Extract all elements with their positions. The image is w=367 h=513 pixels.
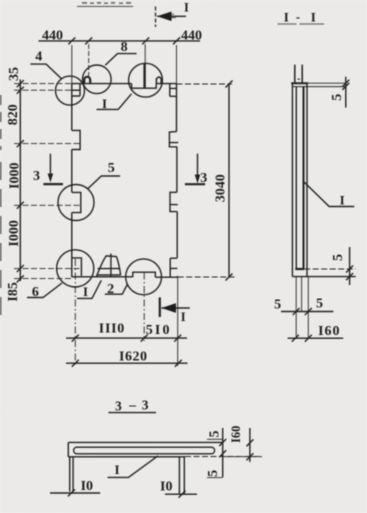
svg-text:I: I [340,193,345,208]
svg-text:4: 4 [35,50,42,65]
leader node 1 top [97,94,132,110]
leader pos.4 [30,64,61,78]
scan noise on marker line [166,14,176,18]
svg-text:3: 3 [200,171,207,186]
leader pos.8 [105,54,136,66]
leader pos.6 [27,283,62,298]
svg-text:I620: I620 [119,350,147,365]
svg-text:5: 5 [208,431,223,438]
left column extensions [14,84,81,279]
svg-text:I60: I60 [318,324,340,339]
right 10 dim [165,493,197,495]
lifting loop (pos.8) [84,77,90,84]
left bottom corner rebate (node 6) [72,258,82,276]
top-right corner plates [170,84,177,97]
panel bottom edge [72,276,178,278]
node circle 6 [57,250,94,287]
svg-text:I: I [284,10,289,25]
bottom-right corner plates [170,258,177,277]
right 3040 dimension [228,84,230,277]
right leg [179,457,184,494]
svg-text:5I0: 5I0 [146,323,172,338]
left edge notch 1 [72,130,80,149]
section marker 3 right [197,154,199,177]
node circle 1 top [129,63,163,97]
ticks top dims [68,37,180,44]
extension left edge up [71,45,73,84]
svg-text:–: – [128,397,136,412]
left leg [70,457,73,492]
svg-text:6: 6 [32,285,39,300]
160 dim [249,428,251,462]
bar left cap [67,442,69,456]
thick extension through node circle 1 [143,64,145,88]
section bottom [292,276,355,278]
panel top edge recess (node 1 detail) [132,84,157,89]
svg-text:I60: I60 [229,426,243,443]
svg-text:5: 5 [331,254,346,261]
leader pos.1 bottom [77,280,101,298]
cavity bottom [295,268,304,270]
anchor plate above top edge [156,77,161,84]
lower extensions [296,277,308,339]
svg-text:III0: III0 [99,322,125,337]
extension recess axis [144,44,146,64]
bottom dimension lines [66,337,187,339]
svg-text:I: I [311,10,316,25]
bar bottom [68,456,185,458]
right edge notch 1 [169,132,178,147]
svg-text:2: 2 [107,282,114,297]
svg-text:I: I [184,0,189,14]
svg-text:440: 440 [181,28,202,43]
section walls [291,83,293,276]
top-left corner plates (node 4) [72,84,80,96]
svg-text:35: 35 [7,67,22,81]
svg-text:I: I [115,462,120,477]
bar top [68,441,222,443]
node circle 4 [56,76,85,105]
node circle 5 [58,185,94,221]
svg-text:I0: I0 [160,479,172,494]
section marker 3 left [49,154,51,176]
svg-text:I: I [102,96,107,111]
scan artifact: left border [0,95,2,318]
svg-text:I: I [181,310,186,324]
160 dim line [288,337,344,339]
svg-text:3040: 3040 [213,174,228,202]
keyway trapezoid (pos.2) [96,256,120,277]
bottom 5 dim [349,247,351,285]
right 5-5 dim [222,428,224,478]
svg-text:I000: I000 [7,220,22,246]
panel right edge [177,84,178,277]
title 1-1 [284,9,316,25]
leader pos.5 [88,176,121,189]
svg-text:5: 5 [274,297,281,312]
svg-text:5: 5 [316,296,323,311]
top 5 dim [345,77,347,108]
bottom extensions [75,259,177,366]
svg-text:I0: I0 [81,479,93,494]
svg-text:3: 3 [115,398,122,413]
extension loop axis [88,44,90,76]
left dimension column line [19,80,21,282]
svg-text:I000: I000 [7,163,22,189]
5+5 dim line [281,311,333,313]
svg-text:I: I [83,284,88,299]
svg-text:-: - [296,9,300,24]
svg-text:5: 5 [108,161,115,176]
panel left edge [71,84,73,277]
leader pos.2 [105,285,128,295]
svg-text:820: 820 [6,104,21,125]
node circle 8 [83,65,112,94]
left 10 dim [50,492,100,494]
top dimension line y=41 [39,40,201,42]
svg-text:5: 5 [206,470,221,477]
cut-off drawing title at very top [77,2,133,7]
inner cavity [74,447,215,454]
bottom dim ticks [72,335,182,367]
svg-text:8: 8 [121,40,128,55]
title 1-1 underline [278,23,325,25]
section marker 1 top [155,7,157,28]
title 3-3 underline [108,412,156,414]
svg-text:3: 3 [142,398,149,413]
svg-text:3: 3 [33,169,40,184]
section marker 1 bottom [159,297,161,317]
bottom edge recess (node 2 circle detail) [133,272,156,277]
leader pos.1 section33 [108,456,159,478]
node circle 2 [126,259,162,295]
top cap [291,82,308,84]
svg-text:I85: I85 [6,282,21,301]
left edge notch 2 (node 5) [72,192,81,212]
extension right edge up [176,45,178,84]
leader pos.1 section [303,181,354,207]
svg-text:440: 440 [42,29,63,44]
panel top edge [72,83,177,85]
right edge notch 2 [170,192,178,211]
protruding bars [295,65,302,83]
left column ticks [17,80,24,282]
svg-text:5: 5 [330,94,345,101]
